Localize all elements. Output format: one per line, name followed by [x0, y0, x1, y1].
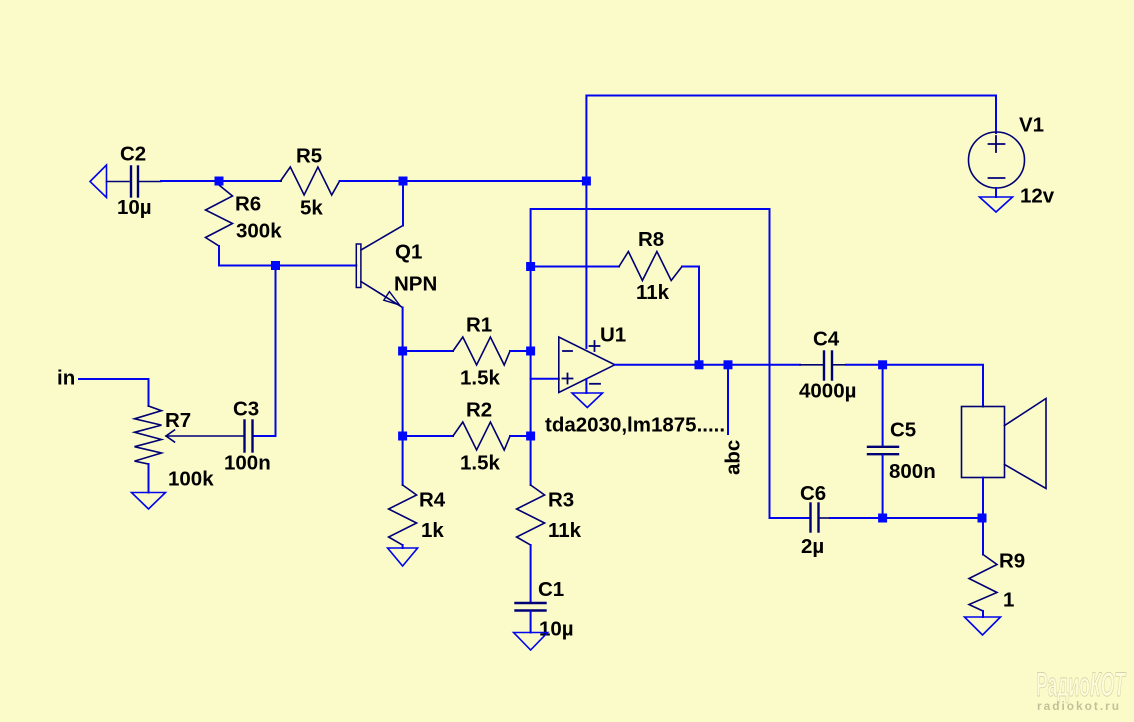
wire output row	[615, 364, 800, 366]
wire right bus vertical	[530, 267, 532, 486]
svg-text:1k: 1k	[421, 519, 444, 542]
wiper arrow of R7	[166, 430, 175, 442]
svg-text:100n: 100n	[224, 451, 271, 474]
svg-text:12v: 12v	[1020, 185, 1055, 208]
resistor R2	[403, 435, 453, 437]
resistor R6	[206, 185, 233, 246]
node port arrow left of C2	[90, 165, 107, 198]
node R2 left	[398, 432, 407, 441]
ground under R7	[132, 493, 166, 510]
wire Q1 emitter to left bus	[402, 308, 404, 486]
wire R5 to collector node and supply node	[340, 180, 587, 182]
svg-text:C2: C2	[120, 143, 146, 166]
capacitor C5	[882, 365, 884, 446]
ground under R4	[388, 548, 418, 566]
svg-text:800n: 800n	[889, 460, 936, 483]
wire C6 row to R9 node	[830, 517, 982, 519]
svg-text:R2: R2	[466, 399, 492, 422]
svg-text:C1: C1	[538, 578, 564, 601]
svg-text:C6: C6	[800, 482, 826, 505]
capacitor C3	[243, 421, 245, 452]
node supply tap	[582, 177, 591, 186]
resistor R5	[281, 167, 340, 195]
svg-text:V1: V1	[1019, 114, 1044, 137]
op-amp negative pin to ground	[585, 379, 587, 393]
node R1 left	[398, 347, 407, 356]
svg-text:R8: R8	[638, 228, 664, 251]
svg-text:R1: R1	[466, 314, 492, 337]
node collector	[399, 177, 408, 186]
svg-text:1.5k: 1.5k	[460, 367, 500, 390]
resistor R9	[982, 518, 984, 555]
ground under R9	[965, 617, 1001, 635]
resistor R1	[403, 350, 453, 352]
node C5/C6	[878, 514, 887, 523]
wire noninverting tap	[531, 378, 559, 380]
node output	[695, 360, 704, 369]
svg-text:in: in	[57, 367, 75, 390]
capacitor C2	[107, 181, 130, 183]
wire top supply rail	[586, 96, 996, 182]
ground under C1	[514, 633, 548, 651]
capacitor C1	[516, 602, 546, 604]
wire C4 to speaker	[846, 365, 983, 407]
resistor R4	[389, 485, 417, 545]
svg-text:11k: 11k	[636, 281, 670, 304]
resistor R3	[517, 485, 545, 545]
node C2/R6/R5	[215, 177, 224, 186]
junction nodes	[215, 177, 987, 523]
voltage source V1	[969, 132, 1025, 188]
svg-text:C5: C5	[890, 419, 916, 442]
svg-text:tda2030,lm1875.....: tda2030,lm1875.....	[545, 414, 725, 437]
wire Q1 collector	[402, 181, 404, 226]
svg-text:radiokot.ru: radiokot.ru	[1037, 699, 1121, 713]
node base	[271, 261, 280, 270]
node R8 left	[526, 262, 535, 271]
resistor R8	[531, 266, 619, 268]
svg-text:C4: C4	[813, 327, 840, 350]
node R1 right	[526, 347, 535, 356]
wire R7 to ground	[148, 464, 150, 493]
svg-text:2µ: 2µ	[801, 535, 824, 558]
node abc tap	[724, 360, 733, 369]
svg-text:R3: R3	[548, 489, 574, 512]
svg-text:C3: C3	[233, 397, 259, 420]
svg-text:100k: 100k	[168, 468, 214, 491]
svg-text:R9: R9	[999, 550, 1025, 573]
svg-text:10µ: 10µ	[117, 196, 152, 219]
svg-text:5k: 5k	[300, 197, 323, 220]
svg-text:11k: 11k	[548, 519, 582, 542]
svg-text:1: 1	[1003, 589, 1014, 612]
capacitor C6	[770, 517, 810, 519]
svg-text:R5: R5	[296, 145, 322, 168]
wire C2 to R5 row	[161, 180, 281, 182]
wire middle bus top row	[531, 209, 770, 518]
svg-text:R7: R7	[165, 409, 191, 432]
capacitor C4	[800, 364, 823, 366]
node abc stub	[727, 365, 729, 434]
wire R6 bottom to base row	[219, 246, 356, 266]
svg-text:Q1: Q1	[395, 241, 422, 264]
potentiometer R7	[135, 406, 162, 464]
wire in to R7	[79, 379, 149, 406]
svg-text:4000µ: 4000µ	[799, 380, 856, 403]
svg-text:R6: R6	[235, 193, 261, 216]
ground under V1	[980, 197, 1013, 212]
node R2 right	[526, 432, 535, 441]
svg-text:R4: R4	[419, 489, 446, 512]
node speaker/R9	[978, 514, 987, 523]
svg-text:abc: abc	[722, 440, 745, 475]
op-amp U1	[559, 337, 615, 393]
ground under U1	[572, 393, 603, 408]
transistor Q1	[356, 244, 361, 288]
svg-text:NPN: NPN	[394, 273, 437, 296]
speaker	[962, 407, 1005, 478]
svg-text:300k: 300k	[236, 220, 282, 243]
node C4/C5	[878, 360, 887, 369]
wire base node down to C3	[254, 266, 276, 437]
svg-text:1.5k: 1.5k	[460, 452, 500, 475]
svg-text:U1: U1	[600, 324, 626, 347]
